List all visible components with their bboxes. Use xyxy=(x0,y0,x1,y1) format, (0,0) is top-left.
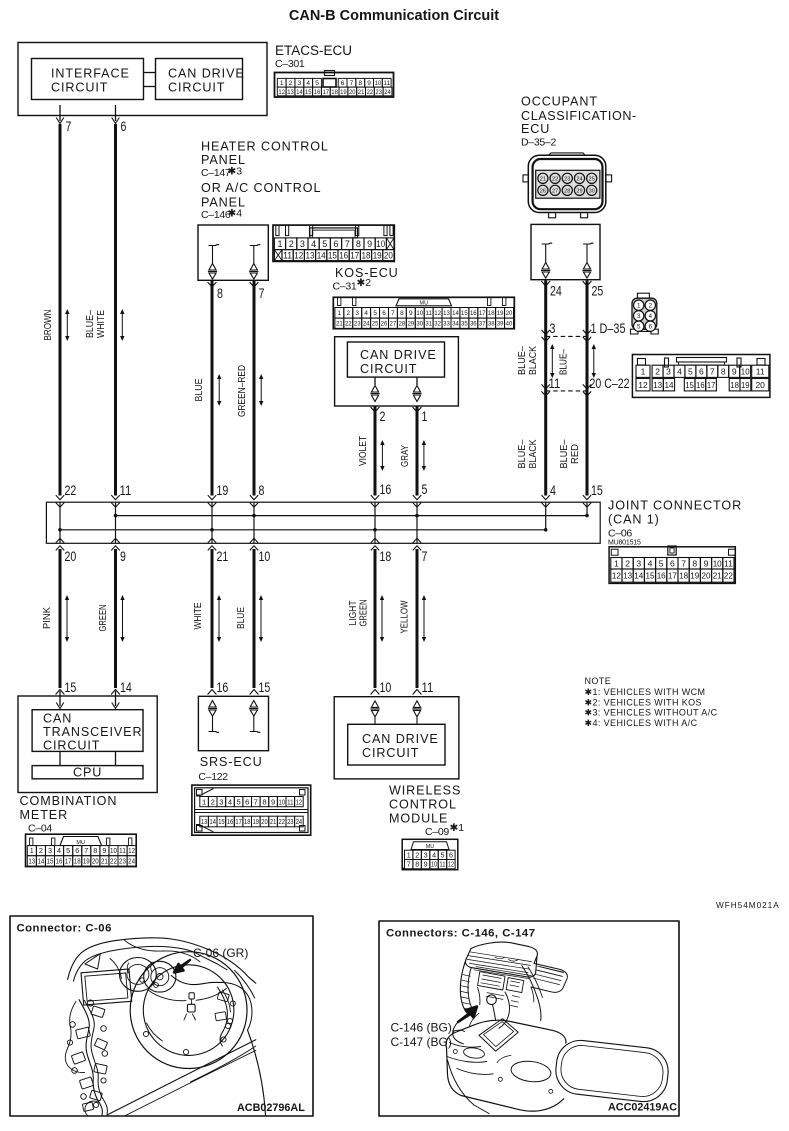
svg-text:22: 22 xyxy=(724,571,733,581)
CAN transceiver circuit box xyxy=(32,710,143,752)
svg-text:13: 13 xyxy=(201,817,207,826)
svg-text:2: 2 xyxy=(655,366,660,376)
svg-text:10: 10 xyxy=(279,797,285,806)
svg-text:7: 7 xyxy=(345,239,350,249)
svg-text:11: 11 xyxy=(756,366,765,376)
svg-text:23: 23 xyxy=(375,89,382,96)
svg-text:12: 12 xyxy=(296,797,302,806)
svg-text:Connector: C-06: Connector: C-06 xyxy=(17,923,112,935)
wire through joint connector at x=254 xyxy=(253,502,255,543)
svg-text:CAN-B Communication Circuit: CAN-B Communication Circuit xyxy=(289,8,499,24)
svg-text:25: 25 xyxy=(589,176,595,182)
CAN bus line 1 inside joint connector xyxy=(116,515,588,517)
svg-text:MU: MU xyxy=(420,301,429,307)
ECU block ETACS-ECU outer box xyxy=(18,43,267,116)
svg-text:16: 16 xyxy=(380,482,392,498)
svg-text:19: 19 xyxy=(83,857,90,866)
svg-text:13: 13 xyxy=(306,250,315,260)
svg-text:27: 27 xyxy=(390,321,397,328)
direction arrow (GREEN-RED wire) xyxy=(260,378,262,403)
svg-text:23: 23 xyxy=(564,176,570,182)
svg-text:7: 7 xyxy=(254,797,258,806)
svg-text:2: 2 xyxy=(625,558,630,568)
svg-text:2: 2 xyxy=(39,846,43,855)
svg-text:1: 1 xyxy=(614,558,619,568)
direction arrow (GRAY wire) xyxy=(423,444,425,468)
wire through joint connector at x=587 xyxy=(586,502,588,515)
svg-text:11: 11 xyxy=(287,797,293,806)
svg-text:16: 16 xyxy=(657,571,666,581)
svg-text:7: 7 xyxy=(391,310,395,317)
svg-text:18: 18 xyxy=(679,571,688,581)
svg-text:10: 10 xyxy=(380,680,392,696)
svg-text:13: 13 xyxy=(287,89,294,96)
svg-text:2: 2 xyxy=(347,310,351,317)
svg-text:CLASSIFICATION-: CLASSIFICATION- xyxy=(521,109,637,123)
termination symbol (SRS right) xyxy=(250,701,257,708)
svg-text:ACC02419AC: ACC02419AC xyxy=(608,1102,677,1114)
svg-text:14: 14 xyxy=(452,310,459,317)
svg-text:15: 15 xyxy=(685,380,694,390)
svg-text:22: 22 xyxy=(367,89,374,96)
direction arrow (BLUE-WHITE wire) xyxy=(121,313,123,338)
svg-text:BLUE: BLUE xyxy=(235,607,247,629)
svg-text:13: 13 xyxy=(443,310,450,317)
svg-text:1: 1 xyxy=(637,302,641,309)
svg-text:28: 28 xyxy=(399,321,406,328)
svg-text:PINK: PINK xyxy=(41,607,53,629)
svg-text:8: 8 xyxy=(415,860,419,869)
svg-text:3: 3 xyxy=(300,239,305,249)
svg-text:37: 37 xyxy=(479,321,486,328)
svg-text:BLACK: BLACK xyxy=(527,346,539,375)
svg-text:16: 16 xyxy=(339,250,348,260)
svg-text:18: 18 xyxy=(380,549,392,565)
svg-text:4: 4 xyxy=(550,483,556,499)
in-line connector D-35 dashed boundary xyxy=(546,335,587,337)
svg-text:✱3: VEHICLES WITHOUT A/C: ✱3: VEHICLES WITHOUT A/C xyxy=(585,708,718,718)
svg-text:10: 10 xyxy=(741,366,750,376)
svg-text:14: 14 xyxy=(296,89,303,96)
direction arrow (BLUE wire) xyxy=(218,378,220,403)
svg-text:6: 6 xyxy=(245,797,249,806)
svg-text:8: 8 xyxy=(262,797,266,806)
svg-text:30: 30 xyxy=(589,188,595,194)
svg-text:1: 1 xyxy=(280,80,284,87)
svg-text:13: 13 xyxy=(623,571,632,581)
svg-text:NOTE: NOTE xyxy=(585,676,612,686)
svg-text:24: 24 xyxy=(550,284,562,300)
svg-text:✱1: VEHICLES WITH WCM: ✱1: VEHICLES WITH WCM xyxy=(585,687,706,697)
svg-text:D–35–2: D–35–2 xyxy=(521,136,556,148)
svg-text:1 D–35: 1 D–35 xyxy=(591,321,626,336)
svg-text:34: 34 xyxy=(452,321,459,328)
svg-text:C-146 (BG),: C-146 (BG), xyxy=(391,1021,456,1035)
svg-text:2: 2 xyxy=(649,302,653,309)
svg-text:C-147 (BG): C-147 (BG) xyxy=(391,1035,452,1049)
svg-text:7: 7 xyxy=(66,119,72,135)
svg-text:4: 4 xyxy=(57,846,61,855)
svg-text:C-06 (GR): C-06 (GR) xyxy=(193,946,248,960)
svg-text:22: 22 xyxy=(345,321,352,328)
svg-text:21: 21 xyxy=(336,321,343,328)
svg-text:40: 40 xyxy=(506,321,513,328)
svg-text:ACB02796AL: ACB02796AL xyxy=(237,1102,305,1114)
svg-text:CPU: CPU xyxy=(73,766,102,780)
svg-text:13: 13 xyxy=(28,857,35,866)
termination symbol (WCM left) xyxy=(371,701,378,708)
ECU block combination meter box xyxy=(18,696,157,793)
svg-text:8: 8 xyxy=(692,558,697,568)
svg-text:2: 2 xyxy=(289,239,294,249)
svg-text:GREEN: GREEN xyxy=(97,605,109,632)
svg-text:3: 3 xyxy=(48,846,52,855)
svg-text:22: 22 xyxy=(552,176,558,182)
svg-text:17: 17 xyxy=(323,89,330,96)
svg-text:15: 15 xyxy=(646,571,655,581)
direction arrow (VIOLET wire) xyxy=(381,444,383,468)
svg-text:10: 10 xyxy=(713,558,722,568)
svg-text:7: 7 xyxy=(710,366,715,376)
svg-text:16: 16 xyxy=(227,817,233,826)
svg-text:7: 7 xyxy=(681,558,686,568)
svg-text:14: 14 xyxy=(317,250,326,260)
svg-text:14: 14 xyxy=(210,817,216,826)
svg-text:4: 4 xyxy=(432,850,436,859)
interface circuit box xyxy=(32,59,144,100)
svg-text:17: 17 xyxy=(707,380,716,390)
svg-text:TRANSCEIVER: TRANSCEIVER xyxy=(43,725,142,739)
wire through joint connector at x=417 xyxy=(416,502,418,543)
svg-text:RED: RED xyxy=(569,444,581,464)
svg-text:12: 12 xyxy=(448,860,454,869)
wire BLUE-BLACK from OCC pin 24 xyxy=(541,281,550,286)
svg-text:C–09: C–09 xyxy=(425,826,449,838)
svg-text:8: 8 xyxy=(356,239,361,249)
svg-text:BROWN: BROWN xyxy=(42,310,54,341)
svg-text:11: 11 xyxy=(439,860,445,869)
svg-text:BLUE–: BLUE– xyxy=(558,349,570,375)
svg-text:✱1: ✱1 xyxy=(450,822,465,834)
direction arrow (BLUE wire) xyxy=(260,599,262,639)
svg-text:CIRCUIT: CIRCUIT xyxy=(168,81,225,95)
wire into CAN transceiver (left) xyxy=(59,691,61,706)
svg-text:4: 4 xyxy=(648,558,653,568)
svg-text:8: 8 xyxy=(93,846,97,855)
svg-text:11: 11 xyxy=(283,250,292,260)
direction arrow (BROWN wire) xyxy=(66,313,68,338)
svg-text:23: 23 xyxy=(287,817,293,826)
svg-text:SRS-ECU: SRS-ECU xyxy=(200,755,263,769)
svg-text:9: 9 xyxy=(732,366,737,376)
svg-text:ETACS-ECU: ETACS-ECU xyxy=(275,43,352,58)
svg-text:3: 3 xyxy=(219,797,223,806)
svg-text:20: 20 xyxy=(65,549,77,565)
svg-text:33: 33 xyxy=(443,321,450,328)
svg-text:C–06: C–06 xyxy=(608,528,632,540)
dashboard line art (C-06) xyxy=(68,938,256,983)
svg-text:2: 2 xyxy=(380,409,386,425)
svg-text:1: 1 xyxy=(338,310,342,317)
svg-text:18: 18 xyxy=(488,310,495,317)
svg-text:CAN: CAN xyxy=(43,712,72,726)
svg-text:17: 17 xyxy=(350,250,359,260)
svg-text:24: 24 xyxy=(576,176,582,182)
svg-text:24: 24 xyxy=(128,857,135,866)
svg-text:15: 15 xyxy=(461,310,468,317)
svg-text:14: 14 xyxy=(634,571,643,581)
direction arrow (WHITE wire) xyxy=(218,599,220,639)
svg-text:19: 19 xyxy=(690,571,699,581)
svg-text:5: 5 xyxy=(441,850,445,859)
svg-text:ECU: ECU xyxy=(521,122,550,136)
svg-text:C–301: C–301 xyxy=(275,58,305,70)
svg-text:INTERFACE: INTERFACE xyxy=(51,67,130,81)
CAN drive circuit box (WCM) xyxy=(348,724,445,765)
svg-text:16: 16 xyxy=(56,857,63,866)
ECU block SRS-ECU box xyxy=(198,696,268,750)
svg-text:20: 20 xyxy=(702,571,711,581)
termination resistor symbol (heater left) xyxy=(209,244,220,247)
svg-text:8: 8 xyxy=(721,366,726,376)
svg-text:23: 23 xyxy=(119,857,126,866)
wire BLUE-RED from OCC pin 25 xyxy=(583,281,592,286)
svg-text:COMBINATION: COMBINATION xyxy=(20,794,118,808)
wire link between interface and CAN drive boxes xyxy=(144,72,156,74)
svg-text:19: 19 xyxy=(373,250,382,260)
termination symbol (OCC right) xyxy=(583,242,594,245)
wire PINK from joint connector pin 20 xyxy=(59,549,62,688)
svg-text:25: 25 xyxy=(592,284,604,300)
svg-text:21: 21 xyxy=(270,817,276,826)
connector C-22 pinout xyxy=(632,355,770,398)
svg-text:23: 23 xyxy=(354,321,361,328)
wire through joint connector at x=60 xyxy=(59,502,61,543)
svg-text:12: 12 xyxy=(294,250,303,260)
svg-text:14: 14 xyxy=(37,857,44,866)
illustration box: Connector C-06 location xyxy=(10,916,313,1116)
ECU block KOS-ECU box xyxy=(335,337,459,406)
wire BLUE from heater pin 8 xyxy=(208,282,217,287)
svg-text:WHITE: WHITE xyxy=(192,603,204,630)
svg-text:1: 1 xyxy=(641,366,646,376)
svg-text:YELLOW: YELLOW xyxy=(399,600,411,633)
svg-text:28: 28 xyxy=(564,188,570,194)
svg-text:5: 5 xyxy=(66,846,70,855)
wire through joint connector at x=375 xyxy=(374,502,376,543)
svg-text:5: 5 xyxy=(659,558,664,568)
svg-text:6: 6 xyxy=(382,310,386,317)
svg-text:12: 12 xyxy=(434,310,441,317)
wire BROWN from ETACS pin 7 xyxy=(59,105,61,121)
svg-text:11: 11 xyxy=(119,846,126,855)
svg-text:9: 9 xyxy=(367,239,372,249)
connector C-09 pinout xyxy=(402,839,458,869)
svg-text:6: 6 xyxy=(75,846,79,855)
svg-text:10: 10 xyxy=(431,860,437,869)
svg-text:C–122: C–122 xyxy=(198,771,228,783)
svg-text:10: 10 xyxy=(416,310,423,317)
console line art (C-146/C-147) xyxy=(471,942,537,963)
svg-text:6: 6 xyxy=(649,323,653,330)
svg-text:7: 7 xyxy=(259,286,265,302)
connector C-31 pinout xyxy=(333,297,514,328)
svg-text:19: 19 xyxy=(741,380,750,390)
svg-text:3: 3 xyxy=(666,366,671,376)
wire into CAN transceiver (right) xyxy=(115,691,117,706)
svg-text:5: 5 xyxy=(236,797,240,806)
connector C-122 pinout xyxy=(192,785,311,835)
direction arrow (LIGHT GREEN wire) xyxy=(381,599,383,639)
svg-text:10: 10 xyxy=(376,239,385,249)
svg-text:14: 14 xyxy=(664,380,673,390)
svg-text:✱3: ✱3 xyxy=(228,166,243,178)
svg-text:14: 14 xyxy=(120,680,132,696)
svg-text:15: 15 xyxy=(65,680,77,696)
svg-text:GRAY: GRAY xyxy=(399,445,411,467)
svg-text:6: 6 xyxy=(333,239,338,249)
connector D-35 face view xyxy=(631,293,659,334)
svg-text:JOINT CONNECTOR: JOINT CONNECTOR xyxy=(608,499,742,513)
svg-text:22: 22 xyxy=(110,857,117,866)
svg-text:CAN DRIVE: CAN DRIVE xyxy=(168,67,245,81)
svg-text:20: 20 xyxy=(506,310,513,317)
svg-text:7: 7 xyxy=(407,860,411,869)
svg-text:31: 31 xyxy=(425,321,432,328)
svg-text:5: 5 xyxy=(688,366,693,376)
svg-text:10: 10 xyxy=(259,549,271,565)
wire VIOLET from KOS pin 2 xyxy=(371,407,380,412)
illustration box: Connectors C-146 C-147 location xyxy=(379,921,679,1116)
svg-text:MODULE: MODULE xyxy=(389,812,448,826)
svg-text:C–04: C–04 xyxy=(28,823,52,835)
svg-text:29: 29 xyxy=(407,321,414,328)
svg-text:6: 6 xyxy=(449,850,453,859)
svg-text:13: 13 xyxy=(653,380,662,390)
svg-text:4: 4 xyxy=(677,366,682,376)
svg-text:4: 4 xyxy=(649,313,653,320)
wire through joint connector at x=212 xyxy=(211,502,213,543)
svg-text:20: 20 xyxy=(349,89,356,96)
svg-text:12: 12 xyxy=(128,846,135,855)
svg-text:19: 19 xyxy=(497,310,504,317)
svg-text:7: 7 xyxy=(84,846,88,855)
svg-text:24: 24 xyxy=(363,321,370,328)
svg-text:HEATER CONTROL: HEATER CONTROL xyxy=(201,140,329,154)
svg-text:1: 1 xyxy=(30,846,34,855)
svg-text:24: 24 xyxy=(296,817,302,826)
svg-text:3: 3 xyxy=(298,80,302,87)
svg-text:7: 7 xyxy=(350,80,354,87)
svg-text:8: 8 xyxy=(358,80,362,87)
svg-text:26: 26 xyxy=(540,188,546,194)
svg-text:CIRCUIT: CIRCUIT xyxy=(362,746,419,760)
svg-text:2: 2 xyxy=(289,80,293,87)
svg-text:GREEN: GREEN xyxy=(358,600,370,627)
svg-text:36: 36 xyxy=(470,321,477,328)
svg-text:20: 20 xyxy=(261,817,267,826)
svg-text:9: 9 xyxy=(424,860,428,869)
svg-text:4: 4 xyxy=(364,310,368,317)
svg-text:8: 8 xyxy=(259,483,265,499)
svg-text:11: 11 xyxy=(425,310,432,317)
svg-text:39: 39 xyxy=(497,321,504,328)
svg-text:9: 9 xyxy=(120,549,126,565)
svg-text:9: 9 xyxy=(704,558,709,568)
link transceiver to CPU xyxy=(59,751,61,765)
svg-text:METER: METER xyxy=(20,808,69,822)
svg-text:BLACK: BLACK xyxy=(527,440,539,469)
svg-text:20: 20 xyxy=(755,380,765,390)
connector C-06 pinout xyxy=(609,546,735,583)
svg-text:21: 21 xyxy=(713,571,722,581)
svg-text:6: 6 xyxy=(121,119,127,135)
svg-text:6: 6 xyxy=(341,80,345,87)
svg-text:9: 9 xyxy=(367,80,371,87)
svg-text:15: 15 xyxy=(591,483,603,499)
wire BLUE from joint connector pin 10 xyxy=(253,549,256,688)
svg-text:CONTROL: CONTROL xyxy=(389,798,457,812)
svg-text:21: 21 xyxy=(358,89,365,96)
svg-text:6: 6 xyxy=(670,558,675,568)
ECU block heater/AC control panel box xyxy=(198,225,268,280)
svg-text:2: 2 xyxy=(415,850,419,859)
svg-text:12: 12 xyxy=(638,380,648,390)
svg-text:VIOLET: VIOLET xyxy=(357,436,369,466)
ECU block occupant classification ECU box xyxy=(531,224,600,279)
svg-text:32: 32 xyxy=(434,321,441,328)
svg-text:GREEN–RED: GREEN–RED xyxy=(236,365,248,417)
svg-text:10: 10 xyxy=(375,80,382,87)
svg-text:21: 21 xyxy=(217,549,229,565)
svg-text:4: 4 xyxy=(306,80,310,87)
direction arrow (GREEN wire) xyxy=(122,599,124,639)
svg-text:20: 20 xyxy=(92,857,99,866)
svg-text:11: 11 xyxy=(384,80,391,87)
wire through joint connector at x=545.7 xyxy=(545,502,547,530)
svg-text:15: 15 xyxy=(305,89,312,96)
svg-text:18: 18 xyxy=(331,89,338,96)
svg-text:18: 18 xyxy=(362,250,371,260)
svg-text:7: 7 xyxy=(422,549,428,565)
svg-text:✱4: ✱4 xyxy=(228,208,243,220)
wire GRAY from KOS pin 1 xyxy=(413,407,422,412)
svg-text:OR A/C CONTROL: OR A/C CONTROL xyxy=(201,181,321,195)
svg-text:1: 1 xyxy=(277,239,282,249)
svg-text:17: 17 xyxy=(65,857,72,866)
svg-text:21: 21 xyxy=(101,857,108,866)
CPU box xyxy=(32,766,143,779)
svg-text:18: 18 xyxy=(730,380,739,390)
svg-text:C–31: C–31 xyxy=(333,281,357,293)
svg-text:30: 30 xyxy=(416,321,423,328)
wire GREEN from joint connector pin 9 xyxy=(114,549,117,688)
direction arrow (YELLOW wire) xyxy=(423,599,425,639)
svg-text:19: 19 xyxy=(340,89,347,96)
svg-text:5: 5 xyxy=(315,80,319,87)
CAN drive circuit box (ETACS) xyxy=(156,59,243,100)
connector D-35-2 face view xyxy=(523,153,612,218)
svg-text:16: 16 xyxy=(696,380,705,390)
svg-text:11: 11 xyxy=(422,680,434,696)
break marks wire at C-22 xyxy=(542,384,550,389)
svg-text:17: 17 xyxy=(479,310,486,317)
svg-text:16: 16 xyxy=(217,680,229,696)
svg-text:20 C–22: 20 C–22 xyxy=(590,376,630,391)
svg-text:19: 19 xyxy=(217,483,229,499)
joint connector C-06 (CAN 1) box xyxy=(46,502,600,543)
svg-text:16: 16 xyxy=(314,89,321,96)
